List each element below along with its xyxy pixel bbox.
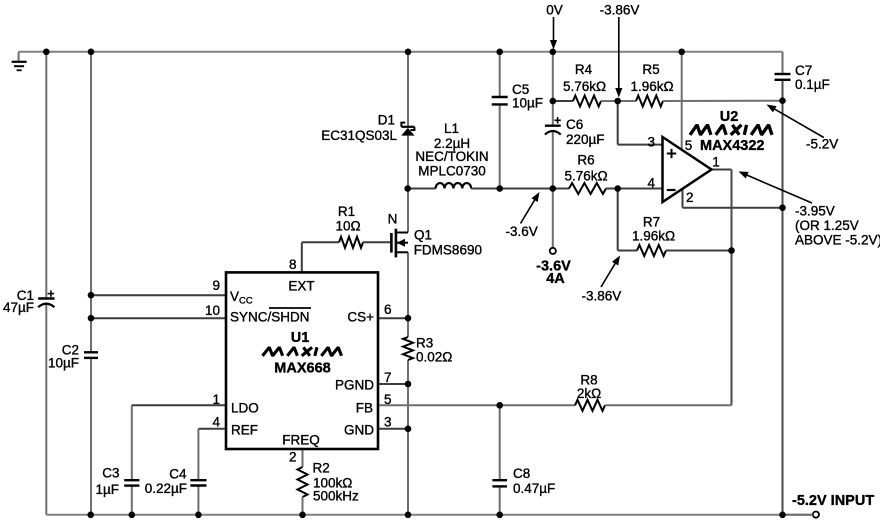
svg-text:C6: C6 <box>566 117 583 132</box>
svg-text:5: 5 <box>384 392 392 407</box>
svg-text:5.76kΩ: 5.76kΩ <box>564 169 607 184</box>
svg-text:LDO: LDO <box>231 401 259 416</box>
svg-text:-3.86V: -3.86V <box>582 289 622 304</box>
svg-text:2: 2 <box>289 450 297 465</box>
svg-text:GND: GND <box>344 423 374 438</box>
svg-text:1.96kΩ: 1.96kΩ <box>630 79 673 94</box>
svg-text:0.47µF: 0.47µF <box>513 481 555 496</box>
svg-text:ABOVE -5.2V): ABOVE -5.2V) <box>795 233 880 248</box>
svg-text:9: 9 <box>212 278 220 293</box>
svg-text:6: 6 <box>384 302 392 317</box>
svg-text:4A: 4A <box>546 271 565 287</box>
svg-text:10µF: 10µF <box>512 96 543 111</box>
svg-text:-3.6V: -3.6V <box>506 224 538 239</box>
svg-text:Q1: Q1 <box>414 228 432 243</box>
svg-text:R5: R5 <box>642 62 659 77</box>
svg-text:2kΩ: 2kΩ <box>577 386 601 401</box>
svg-text:EXT: EXT <box>288 279 314 294</box>
svg-text:5.76kΩ: 5.76kΩ <box>563 79 606 94</box>
svg-text:-3.86V: -3.86V <box>600 3 640 18</box>
svg-text:-5.2V: -5.2V <box>806 137 838 152</box>
svg-text:1: 1 <box>712 155 720 170</box>
svg-text:10: 10 <box>205 303 220 318</box>
svg-text:C8: C8 <box>513 466 530 481</box>
svg-text:U1: U1 <box>291 330 310 346</box>
svg-text:1: 1 <box>212 392 220 407</box>
svg-text:MAX668: MAX668 <box>274 361 330 377</box>
svg-text:500kHz: 500kHz <box>313 489 359 504</box>
svg-text:7: 7 <box>384 370 392 385</box>
svg-text:220µF: 220µF <box>566 132 605 147</box>
svg-text:PGND: PGND <box>335 378 374 393</box>
svg-text:R1: R1 <box>338 204 355 219</box>
svg-text:1.96kΩ: 1.96kΩ <box>632 229 675 244</box>
svg-text:2: 2 <box>686 190 694 205</box>
svg-text:MPLC0730: MPLC0730 <box>418 164 486 179</box>
svg-text:R6: R6 <box>577 153 594 168</box>
svg-text:3: 3 <box>384 415 392 430</box>
svg-text:REF: REF <box>231 423 258 438</box>
svg-text:10Ω: 10Ω <box>335 219 360 234</box>
svg-text:-3.95V: -3.95V <box>795 204 835 219</box>
svg-text:R3: R3 <box>416 336 433 351</box>
svg-text:4: 4 <box>647 176 655 191</box>
svg-text:3: 3 <box>647 135 655 150</box>
svg-text:C4: C4 <box>169 467 187 482</box>
svg-text:1µF: 1µF <box>95 482 119 497</box>
svg-text:0.22µF: 0.22µF <box>145 481 187 496</box>
svg-text:MAX4322: MAX4322 <box>700 138 764 154</box>
svg-text:0.02Ω: 0.02Ω <box>416 350 452 365</box>
svg-text:FB: FB <box>356 401 373 416</box>
svg-text:8: 8 <box>289 257 297 272</box>
svg-text:SYNC/SHDN: SYNC/SHDN <box>230 310 310 325</box>
svg-text:L1: L1 <box>444 121 459 136</box>
svg-text:R2: R2 <box>313 461 330 476</box>
svg-text:NEC/TOKIN: NEC/TOKIN <box>415 149 488 164</box>
svg-text:-5.2V INPUT: -5.2V INPUT <box>792 493 874 509</box>
svg-text:0.1µF: 0.1µF <box>795 77 830 92</box>
svg-text:FDMS8690: FDMS8690 <box>414 243 482 258</box>
svg-text:CS+: CS+ <box>347 310 374 325</box>
svg-text:C7: C7 <box>795 63 812 78</box>
svg-text:EC31QS03L: EC31QS03L <box>321 128 397 143</box>
svg-text:0V: 0V <box>546 3 563 18</box>
svg-text:U2: U2 <box>720 109 739 125</box>
svg-text:N: N <box>388 212 398 227</box>
svg-text:R4: R4 <box>575 62 593 77</box>
svg-text:D1: D1 <box>378 113 395 128</box>
svg-text:FREQ: FREQ <box>282 433 320 448</box>
svg-text:5: 5 <box>685 138 693 153</box>
svg-text:4: 4 <box>212 415 220 430</box>
svg-text:(OR 1.25V: (OR 1.25V <box>795 218 859 233</box>
svg-text:C3: C3 <box>102 466 119 481</box>
svg-text:47µF: 47µF <box>3 300 34 315</box>
svg-text:10µF: 10µF <box>48 356 79 371</box>
svg-text:R7: R7 <box>643 215 660 230</box>
